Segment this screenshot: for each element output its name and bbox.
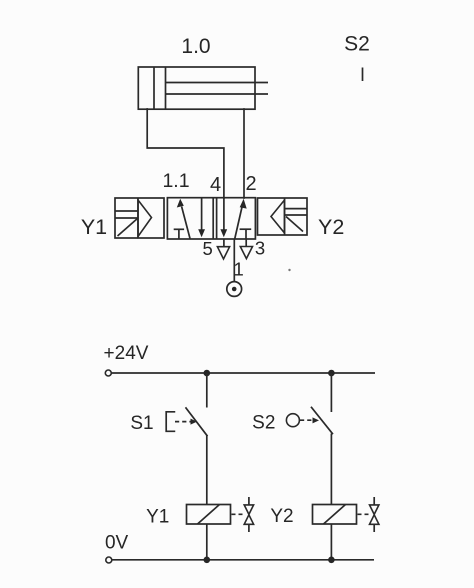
junction dot 0V-Y1 [204,557,211,564]
valve 1.1 body outline [167,198,255,239]
solenoid coil Y1 [187,505,231,525]
actuator Y2 pilot triangle [271,200,285,233]
0V supply rail [112,559,374,561]
port 3 exhaust triangle [240,247,252,259]
S1 push-button actuator bracket [166,412,174,432]
cylinder piston rod upper line [166,82,269,84]
valve right box flow arrow 1 to 2 (diagonal, arrowhead up) [235,199,247,239]
actuator Y2 divider [284,198,286,235]
valve left box flow arrow 1 to 4 (diagonal, arrowhead up) [177,199,190,239]
actuator Y1 solenoid upper line [115,210,138,212]
svg-text:1.0: 1.0 [181,35,210,58]
cylinder 1.0 body [138,67,255,109]
cylinder piston line 2 [165,67,167,109]
suppressor diode V1 [244,497,253,532]
wire S2 to coil Y2 [330,434,332,505]
label Y2 (coil) [270,506,293,527]
wire S1 to coil Y1 [206,436,208,505]
S2 contact blade (NO) [312,407,333,433]
label S2 (top right) [344,33,370,56]
solenoid pilot actuator Y2 box [258,198,308,235]
junction dot rail-S1 [204,370,211,377]
label +24V [104,343,149,364]
wire rail to S1 contact [206,373,208,408]
port 5 exhaust stem [223,239,225,247]
wire cylinder left port to valve port 4 [147,109,224,198]
actuator Y2 solenoid upper line [285,208,308,210]
valve right box blocked port T (port 3) [240,229,252,239]
stray scan speck [288,269,290,271]
valve left box flow arrow 2 to 3 (vertical, arrowhead down) [198,198,205,237]
valve right box flow arrow 4 to 5 (vertical, arrowhead down) [220,198,227,237]
actuator Y1 solenoid lower line [115,217,138,219]
label 0V [105,533,129,554]
label S2 (electrical) [252,413,275,434]
0V rail terminal circle [106,557,112,563]
solenoid coil Y2 [313,505,357,525]
S2 actuator dashed link [300,417,319,423]
svg-text:4: 4 [210,174,221,196]
actuator Y1 pilot triangle [138,200,152,237]
valve left box blocked port T (port 5) [174,229,184,239]
S1 actuator dashed link [175,419,197,425]
coil Y2 dashed link to suppressor [358,513,370,515]
label 1.1 (valve designator) [162,170,189,192]
S2 roller actuator circle [286,414,299,427]
label port 1 [233,259,243,280]
label port 5 [202,238,212,259]
actuator Y1 divider [137,198,139,238]
+24V rail terminal circle [105,370,111,376]
svg-text:Y1: Y1 [146,507,169,528]
svg-text:5: 5 [202,238,212,259]
solenoid pilot actuator Y1 box [115,198,164,238]
svg-text:Y2: Y2 [270,506,293,527]
cylinder piston line 1 [153,67,155,109]
svg-text:S1: S1 [130,413,153,434]
label port 2 [245,173,256,195]
port 5 exhaust triangle [217,247,229,259]
svg-text:Y2: Y2 [318,215,344,239]
junction dot rail-S2 [328,370,335,377]
svg-text:3: 3 [255,238,265,259]
svg-text:2: 2 [245,173,256,195]
label I (state mark below S2) [362,68,364,82]
svg-text:0V: 0V [105,533,129,554]
wire coil Y1 to 0V rail [206,524,208,560]
actuator Y2 solenoid diagonal [286,217,303,232]
wire rail to S2 contact [330,373,332,412]
junction dot 0V-Y2 [328,557,335,564]
svg-text:1.1: 1.1 [162,170,189,192]
label port 4 [210,174,221,196]
label S1 [130,413,153,434]
coil Y1 dashed link to suppressor [232,513,244,515]
wire valve port 1 to pressure source [233,239,235,282]
label port 3 [255,238,265,259]
label Y1 (valve left) [81,215,107,239]
wire cylinder right port to valve port 2 [243,109,245,198]
label Y2 (valve right) [318,215,344,239]
port 3 exhaust stem [245,239,247,247]
svg-text:Y1: Y1 [81,215,107,239]
suppressor diode V2 [370,497,379,532]
label Y1 (coil) [146,507,169,528]
svg-text:S2: S2 [344,33,370,56]
actuator Y1 solenoid diagonal [118,218,139,236]
label 1.0 (cylinder designator) [181,35,210,58]
wire coil Y2 to 0V rail [330,524,332,560]
valve position divider line left [212,198,214,239]
cylinder piston rod lower line [166,93,269,95]
svg-text:S2: S2 [252,413,275,434]
svg-text:1: 1 [233,259,243,280]
pressure source circle [227,282,242,297]
valve position divider line right [216,198,218,239]
actuator Y2 solenoid lower line [285,214,308,216]
+24V supply rail [112,372,376,374]
svg-text:+24V: +24V [104,343,149,364]
S1 contact blade (NO) [186,408,207,436]
